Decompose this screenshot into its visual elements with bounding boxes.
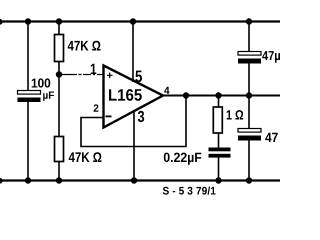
op-amp label L165 (109, 89, 142, 101)
minus input mark (106, 116, 112, 118)
wire C4 bottom lead (248, 64, 250, 96)
node top rail C4 (246, 18, 252, 24)
capacitor C1 100uF electrolytic (18, 91, 41, 103)
wire C1 bottom lead (27, 102, 29, 181)
plus input mark (107, 73, 113, 79)
resistor R2 47K (55, 137, 64, 162)
node top rail pin5 (130, 18, 136, 24)
wire R3 top lead (218, 96, 220, 108)
value label 100 (32, 78, 51, 87)
value label uF (C1) (43, 92, 54, 101)
node bottom rail C1 (25, 177, 31, 183)
pin number 2 (94, 104, 99, 111)
pin number 4 (164, 87, 169, 94)
node bottom rail C5 (246, 177, 252, 183)
wire R3 to C3 (218, 133, 220, 148)
node top rail R1 (56, 18, 62, 24)
wire R1 top lead (58, 22, 60, 35)
terminal bottom-left input (0, 178, 3, 184)
wire output rail from pin 4 (161, 95, 280, 97)
value label 0.22uF (164, 153, 202, 165)
capacitor C5 47uF electrolytic (238, 129, 261, 141)
pin number 3 (138, 111, 144, 122)
value label 47u (C4) (262, 51, 280, 63)
wire R2 bottom lead (58, 162, 60, 181)
wire pin 2 feedback loop (81, 96, 186, 147)
node bottom rail pin3 (131, 177, 137, 183)
wire C5 top lead (248, 96, 250, 130)
value label 47K ohm (R1) (68, 41, 101, 51)
figure reference S-5379/1 (163, 187, 216, 195)
node bottom rail C3 (215, 177, 221, 183)
resistor R1 47K (55, 35, 64, 62)
wire C3 bottom lead (218, 158, 220, 181)
node top rail C1 (25, 18, 31, 24)
pin number 5 (135, 71, 142, 83)
wire pin 3 to ground rail (133, 111, 135, 181)
capacitor C4 47uF electrolytic (238, 52, 261, 64)
value label 47 (C5) (265, 133, 278, 142)
node A divider midpoint (56, 71, 62, 77)
wire R1 bottom lead (58, 62, 60, 75)
wire C4 top lead (248, 22, 250, 53)
pin number 1 (91, 64, 97, 74)
wire top supply rail (0, 20, 280, 22)
wire C1 top lead (27, 22, 29, 92)
wire bottom ground rail (0, 179, 280, 181)
node output feedback (183, 92, 189, 98)
node bottom rail R2 (56, 177, 62, 183)
node output R3 (215, 92, 221, 98)
node output C5 (246, 92, 252, 98)
value label 1 ohm (227, 110, 244, 119)
terminal top-left input (0, 19, 3, 25)
value label 47K ohm (R2) (69, 152, 102, 162)
wire C5 bottom lead (248, 141, 250, 181)
wire node A to pin1 (dash-dot) (59, 74, 103, 76)
capacitor C3 0.22uF (209, 148, 231, 158)
resistor R3 1 ohm (213, 107, 222, 133)
op-amp U1 L165 (104, 66, 164, 128)
wire pin 5 to top rail (132, 22, 134, 83)
wire R2 top lead (58, 75, 60, 137)
